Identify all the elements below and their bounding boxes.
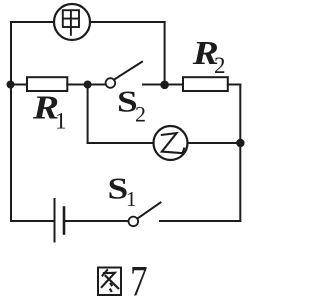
- switch S1 pivot contact: [129, 217, 139, 227]
- voltmeter U2 (meter 乙) circle: [154, 126, 188, 160]
- ammeter U1 (meter 甲) circle: [54, 4, 90, 40]
- wire battery to S1: [64, 220, 128, 222]
- svg-text:2: 2: [214, 53, 226, 78]
- battery BT1 long plate: [54, 199, 56, 242]
- node C junction dot: [84, 81, 92, 89]
- wire vertical drop to node B: [164, 22, 166, 85]
- resistor R1 body: [27, 77, 67, 91]
- caption 图 glyph: [98, 268, 121, 296]
- node D junction dot: [236, 139, 244, 147]
- wire voltmeter to node D: [188, 142, 241, 144]
- wire R1 to node C: [67, 84, 105, 86]
- switch S2 blade: [114, 62, 142, 80]
- switch S2 pivot contact: [106, 78, 116, 88]
- wire left vertical: [10, 22, 12, 221]
- meter 甲 glyph: [63, 10, 79, 36]
- svg-text:1: 1: [126, 187, 137, 211]
- switch S1 blade: [138, 203, 161, 219]
- svg-text:2: 2: [135, 102, 146, 127]
- svg-text:7: 7: [130, 257, 148, 305]
- wire bottom left to battery: [11, 220, 55, 222]
- battery BT1 short plate: [63, 208, 66, 234]
- wire S2 fixed contact to node B: [143, 84, 183, 86]
- resistor R2 body: [183, 77, 228, 91]
- node B junction dot: [160, 81, 169, 90]
- node A junction dot: [7, 81, 15, 89]
- wire S1 fixed contact to bottom right: [160, 220, 240, 222]
- wire right vertical: [239, 85, 241, 222]
- wire to voltmeter: [88, 142, 154, 144]
- wire node A to R1: [11, 84, 27, 86]
- wire R2 to right corner: [228, 84, 241, 86]
- wire top left segment: [11, 21, 54, 23]
- svg-text:1: 1: [55, 109, 67, 134]
- meter 乙 glyph: [161, 133, 185, 153]
- wire top right segment: [90, 21, 165, 23]
- wire node C down: [87, 85, 89, 144]
